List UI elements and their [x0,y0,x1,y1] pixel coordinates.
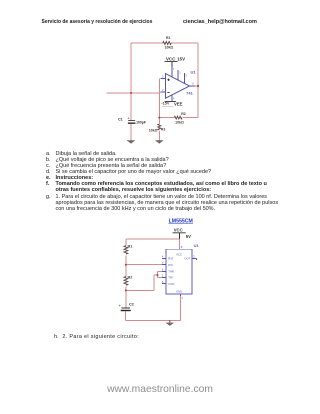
wire output to rail [195,85,199,87]
junction node at left rail / input stub [130,92,132,94]
svg-text:8: 8 [181,245,183,249]
resistor R2 zigzag [124,277,128,286]
wire top to R1 [126,238,180,240]
output pin 6 [190,85,197,87]
VCC supply bar [165,61,178,63]
svg-text:+: + [119,304,121,308]
svg-text:R3: R3 [161,127,166,131]
wire right rail [197,43,199,118]
wire divider rail [158,79,160,118]
body list text [0,150,1,152]
svg-text:VCC: VCC [176,253,182,257]
resistor R2 zigzag [174,116,182,119]
plus marker [167,79,169,81]
svg-text:100pF: 100pF [136,121,146,125]
header right email [183,19,257,25]
capacitor C2 plates [121,308,130,309]
svg-text:+: + [128,116,130,120]
svg-text:CON: CON [168,282,174,286]
wire C2 to bottom [125,312,127,321]
VEE supply bar [165,101,176,103]
junction R2/C2 [125,289,127,291]
wire top left segment [131,42,163,44]
VCC supply bar [173,232,186,234]
wire THR TRI bracket [158,271,163,277]
svg-text:RST: RST [168,257,174,261]
IC U1 rectangle [166,249,192,294]
circuit 2: LM555 astable [108,218,208,330]
wire R2 bottom right [126,275,158,290]
svg-text:VCC: VCC [174,227,183,232]
pin GND stub [179,294,181,296]
pin RST stub [162,257,166,259]
svg-text:R2: R2 [181,112,186,116]
svg-text:C2: C2 [129,303,134,307]
svg-text:OUT: OUT [185,257,191,261]
svg-text:TRI: TRI [168,276,173,280]
junction R1/DIS [125,264,127,266]
line h [54,334,59,340]
wire C1 bottom [130,124,132,141]
junction output/rail [197,85,199,87]
op-amp bottom pin 4 [171,95,173,102]
wire R1 to junction [125,255,127,264]
junction THR/TRI [157,274,159,276]
svg-text:C1: C1 [118,117,123,121]
junction node divider/R2 [158,117,160,119]
svg-text:THR: THR [168,270,174,274]
pin TRI stub [162,276,166,278]
resistor R1 zigzag [124,246,128,254]
svg-text:VEE: VEE [174,102,183,107]
svg-text:VCC 15V: VCC 15V [166,56,185,61]
svg-text:6: 6 [192,81,194,85]
svg-text:3: 3 [162,75,164,79]
op-amp input pin + (top) [161,78,166,80]
ground under C1 [127,140,136,143]
svg-text:1: 1 [181,296,183,300]
svg-text:7: 7 [173,67,175,71]
svg-text:R1: R1 [128,245,133,249]
wire R3 bottom [158,101,160,140]
wire inverting input stub [106,92,160,94]
svg-text:U1: U1 [194,243,200,248]
svg-text:1: 1 [179,71,181,75]
svg-text:2: 2 [162,88,164,92]
wire bottom [126,319,181,321]
svg-text:U1: U1 [190,69,196,74]
pin OUT stub [192,258,197,260]
svg-text:DIS: DIS [168,263,173,267]
minus marker [167,91,169,93]
header left title [42,19,153,25]
ground under R3 [155,140,164,143]
svg-text:10kΩ: 10kΩ [165,46,174,50]
svg-text:741: 741 [186,91,193,96]
VCC pin vertical black [179,233,181,239]
wire R2 bottom to C2 [125,287,127,308]
svg-text:GND: GND [176,289,182,293]
op-amp top pin 5 [184,73,186,83]
svg-text:5: 5 [186,74,188,78]
wire R2 rail [125,265,127,277]
wire R2 horizontal [159,117,198,119]
wire GND pin [179,296,181,321]
svg-text:-15V: -15V [161,102,169,106]
wire R1 rail top [125,239,127,246]
wire junction to DIS [126,264,162,266]
op-amp U1 triangle [166,74,190,99]
circuit 1: 741 op-amp relaxation oscillator [100,30,210,152]
pin THR stub [162,270,166,272]
wire VCC to pin 8 [179,239,181,249]
footer watermark [0,384,320,395]
op-amp top pin 1 [177,70,179,80]
svg-text:10kΩ: 10kΩ [149,129,158,133]
svg-text:3: 3 [193,254,195,258]
resistor R1 zigzag [163,42,171,45]
op-amp top pin 7 [171,67,173,77]
op-amp input pin - (bottom) [161,91,166,93]
svg-text:R1: R1 [166,36,171,40]
wire left rail [130,43,132,120]
pin DIS stub [162,264,166,266]
capacitor C1 plates [128,119,135,122]
svg-text:4: 4 [173,97,175,101]
resistor R3 zigzag vertical [158,124,161,130]
svg-text:10kΩ: 10kΩ [175,120,184,124]
wire top right segment [171,42,198,44]
svg-text:R2: R2 [128,276,133,280]
svg-text:5V: 5V [186,234,191,239]
pin CON stub [162,283,166,285]
ground symbol [169,320,171,322]
